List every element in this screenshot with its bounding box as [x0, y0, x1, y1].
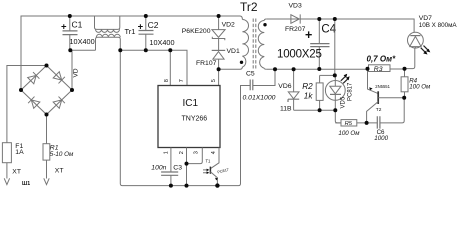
- svg-text:1000: 1000: [374, 135, 388, 142]
- svg-text:VD5: VD5: [341, 96, 347, 108]
- svg-text:2N5551: 2N5551: [375, 84, 390, 89]
- svg-text:VD2: VD2: [222, 22, 235, 29]
- svg-text:VD1: VD1: [227, 48, 240, 55]
- svg-text:T2: T2: [376, 107, 382, 113]
- svg-text:R2: R2: [302, 82, 313, 91]
- svg-text:Tr2: Tr2: [240, 0, 258, 14]
- svg-text:0.01X1000: 0.01X1000: [243, 94, 276, 101]
- svg-text:FR207: FR207: [285, 26, 306, 33]
- svg-text:R3: R3: [374, 66, 383, 73]
- svg-text:5: 5: [211, 79, 217, 82]
- svg-text:VD6: VD6: [278, 83, 291, 90]
- svg-text:10В X 800мА: 10В X 800мА: [419, 22, 458, 29]
- svg-text:Tr1: Tr1: [125, 27, 136, 36]
- svg-text:1A: 1A: [15, 149, 24, 156]
- svg-text:C2: C2: [148, 20, 159, 30]
- svg-text:3: 3: [194, 151, 200, 154]
- svg-text:Ш1: Ш1: [22, 181, 30, 187]
- svg-text:8: 8: [164, 79, 170, 82]
- svg-text:VD3: VD3: [289, 3, 302, 10]
- svg-text:100 Ом: 100 Ом: [409, 83, 431, 90]
- svg-text:+: +: [138, 22, 144, 33]
- svg-text:10X400: 10X400: [149, 38, 174, 47]
- svg-text:IC1: IC1: [183, 98, 199, 109]
- svg-text:7: 7: [179, 79, 185, 82]
- svg-text:TNY266: TNY266: [182, 116, 208, 123]
- svg-text:100 Ом: 100 Ом: [338, 130, 360, 137]
- svg-text:FR107: FR107: [196, 60, 217, 67]
- svg-text:100n: 100n: [151, 164, 166, 171]
- svg-text:C3: C3: [173, 164, 182, 171]
- svg-text:XT: XT: [55, 168, 64, 175]
- svg-text:11В: 11В: [280, 105, 292, 112]
- svg-text:0,7 Ом*: 0,7 Ом*: [367, 55, 397, 64]
- svg-text:1k: 1k: [304, 91, 314, 100]
- svg-text:4: 4: [211, 151, 217, 154]
- svg-text:10X400: 10X400: [70, 37, 95, 46]
- svg-text:XT: XT: [12, 169, 21, 176]
- svg-text:2: 2: [179, 151, 185, 154]
- svg-text:+: +: [305, 28, 312, 42]
- svg-text:P6KE200: P6KE200: [182, 28, 211, 35]
- svg-text:C1: C1: [72, 20, 83, 30]
- svg-text:PC817: PC817: [347, 82, 353, 101]
- svg-text:1: 1: [164, 151, 170, 154]
- svg-text:T1: T1: [206, 159, 212, 164]
- svg-text:+: +: [61, 22, 67, 33]
- svg-text:R5: R5: [345, 121, 353, 127]
- svg-text:1000X25: 1000X25: [277, 49, 322, 61]
- svg-text:VD7: VD7: [419, 15, 432, 22]
- svg-text:VD: VD: [73, 68, 80, 77]
- svg-text:C5: C5: [246, 71, 255, 78]
- svg-text:5-10 Ом: 5-10 Ом: [50, 151, 74, 158]
